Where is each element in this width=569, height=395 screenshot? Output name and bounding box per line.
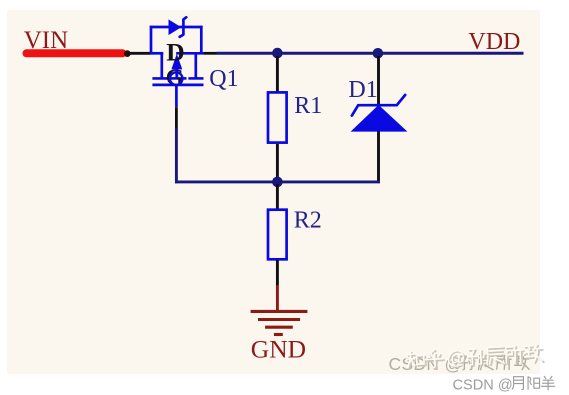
rail stub left [150,52,164,55]
bulk arrow head of Q1 [171,54,182,70]
watermark: gray username glyphs (under emboss) [460,355,529,370]
svg-text:@: @ [446,348,466,370]
wire: black from gate node down to R2 [276,184,279,209]
body diode loop: right vertical [200,26,203,55]
node junction dot on gate rail [272,177,283,188]
watermark: CSDN @月阳羊 bottom line [453,378,513,394]
contact bar right [188,77,203,80]
zener diode D1 triangle [351,105,408,132]
resistor R2 [268,210,287,260]
wire: black from R1 down to gate node rail [276,144,279,182]
node junction dot on rail above R1 [272,48,283,59]
body zener diode triangle of Q1 [169,19,182,35]
rail stub right (passes behind letter D) [176,52,204,55]
wire: navy gate node horizontal rail [175,180,380,183]
wire: black stub right of Q1 [204,52,217,55]
body diode loop: left vertical [150,26,153,55]
emboss white pass [406,344,542,369]
wire: gate lead navy segment down to gate node [175,129,178,184]
watermark: embossed zhihu line (shadow pass) [406,343,544,372]
ground symbol [251,311,308,334]
resistor R1 [268,92,287,142]
body diode loop: top horizontal [150,26,203,29]
zener diode D1 cathode bar with bent ends [352,95,405,116]
contact bar middle [171,77,187,80]
wire: black from rail down to R1 [276,56,279,92]
ground bar 4 [274,333,283,336]
wire: VIN thick red stub [27,49,123,57]
wire: navy VDD rail [217,52,524,55]
gate plate bar [152,84,203,87]
source leg left [160,53,163,78]
transistor Q1 (P-MOSFET with body zener diode) [150,26,204,108]
gate pin lead (blue part) [175,86,178,107]
ground bar 1 [251,310,308,313]
wire: black from VIN to Q1 source loop [128,52,151,55]
node junction dot on rail above D1 [373,48,384,59]
bulk arrow shaft of Q1 [175,66,178,78]
contact bar left [152,77,169,80]
drain leg right [194,53,197,78]
watermark: gray CSDN line over schematic [389,354,463,374]
wire: black from R2 down [276,260,279,286]
wire: gate lead black segment [175,107,178,128]
bulk circle of Q1 [170,72,183,85]
node: VIN wire end dot [124,50,131,57]
ground bar 3 [265,326,293,329]
wire: black from rail down to D1 [377,56,380,182]
ground bar 2 [258,318,300,321]
body zener diode cathode bar (bent) [180,17,187,37]
wire: dark red lead to ground [276,286,279,312]
svg-text:CSDN @: CSDN @ [453,378,513,394]
